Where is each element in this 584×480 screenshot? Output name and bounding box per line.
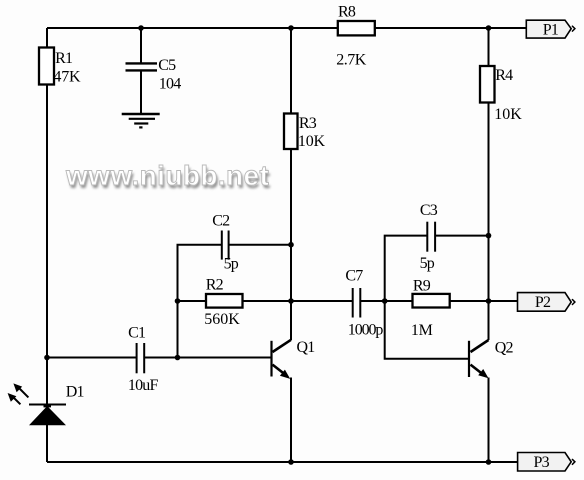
svg-text:104: 104 — [159, 76, 181, 93]
svg-text:10K: 10K — [298, 133, 326, 150]
svg-text:47K: 47K — [53, 69, 81, 86]
svg-text:Q2: Q2 — [495, 339, 514, 356]
svg-text:R8: R8 — [338, 4, 356, 21]
svg-text:2.7K: 2.7K — [336, 52, 367, 69]
svg-text:C3: C3 — [420, 202, 438, 219]
svg-text:C5: C5 — [158, 57, 176, 74]
svg-text:Q1: Q1 — [297, 339, 316, 356]
svg-text:1M: 1M — [411, 322, 433, 339]
svg-text:10uF: 10uF — [128, 377, 159, 394]
svg-text:P2: P2 — [535, 294, 551, 311]
svg-text:D1: D1 — [66, 384, 85, 401]
svg-text:C7: C7 — [345, 268, 363, 285]
svg-text:R1: R1 — [55, 50, 73, 67]
svg-text:5p: 5p — [224, 256, 239, 273]
svg-text:10K: 10K — [494, 106, 522, 123]
svg-text:C1: C1 — [128, 325, 146, 342]
svg-text:R9: R9 — [413, 277, 431, 294]
svg-text:P1: P1 — [543, 21, 559, 38]
svg-text:R2: R2 — [206, 277, 224, 294]
svg-text:R4: R4 — [495, 67, 513, 84]
svg-text:5p: 5p — [420, 255, 435, 272]
svg-text:P3: P3 — [534, 454, 550, 471]
svg-text:C2: C2 — [212, 212, 230, 229]
svg-text:1000p: 1000p — [348, 321, 384, 338]
svg-text:R3: R3 — [299, 115, 317, 132]
svg-text:560K: 560K — [204, 311, 240, 328]
